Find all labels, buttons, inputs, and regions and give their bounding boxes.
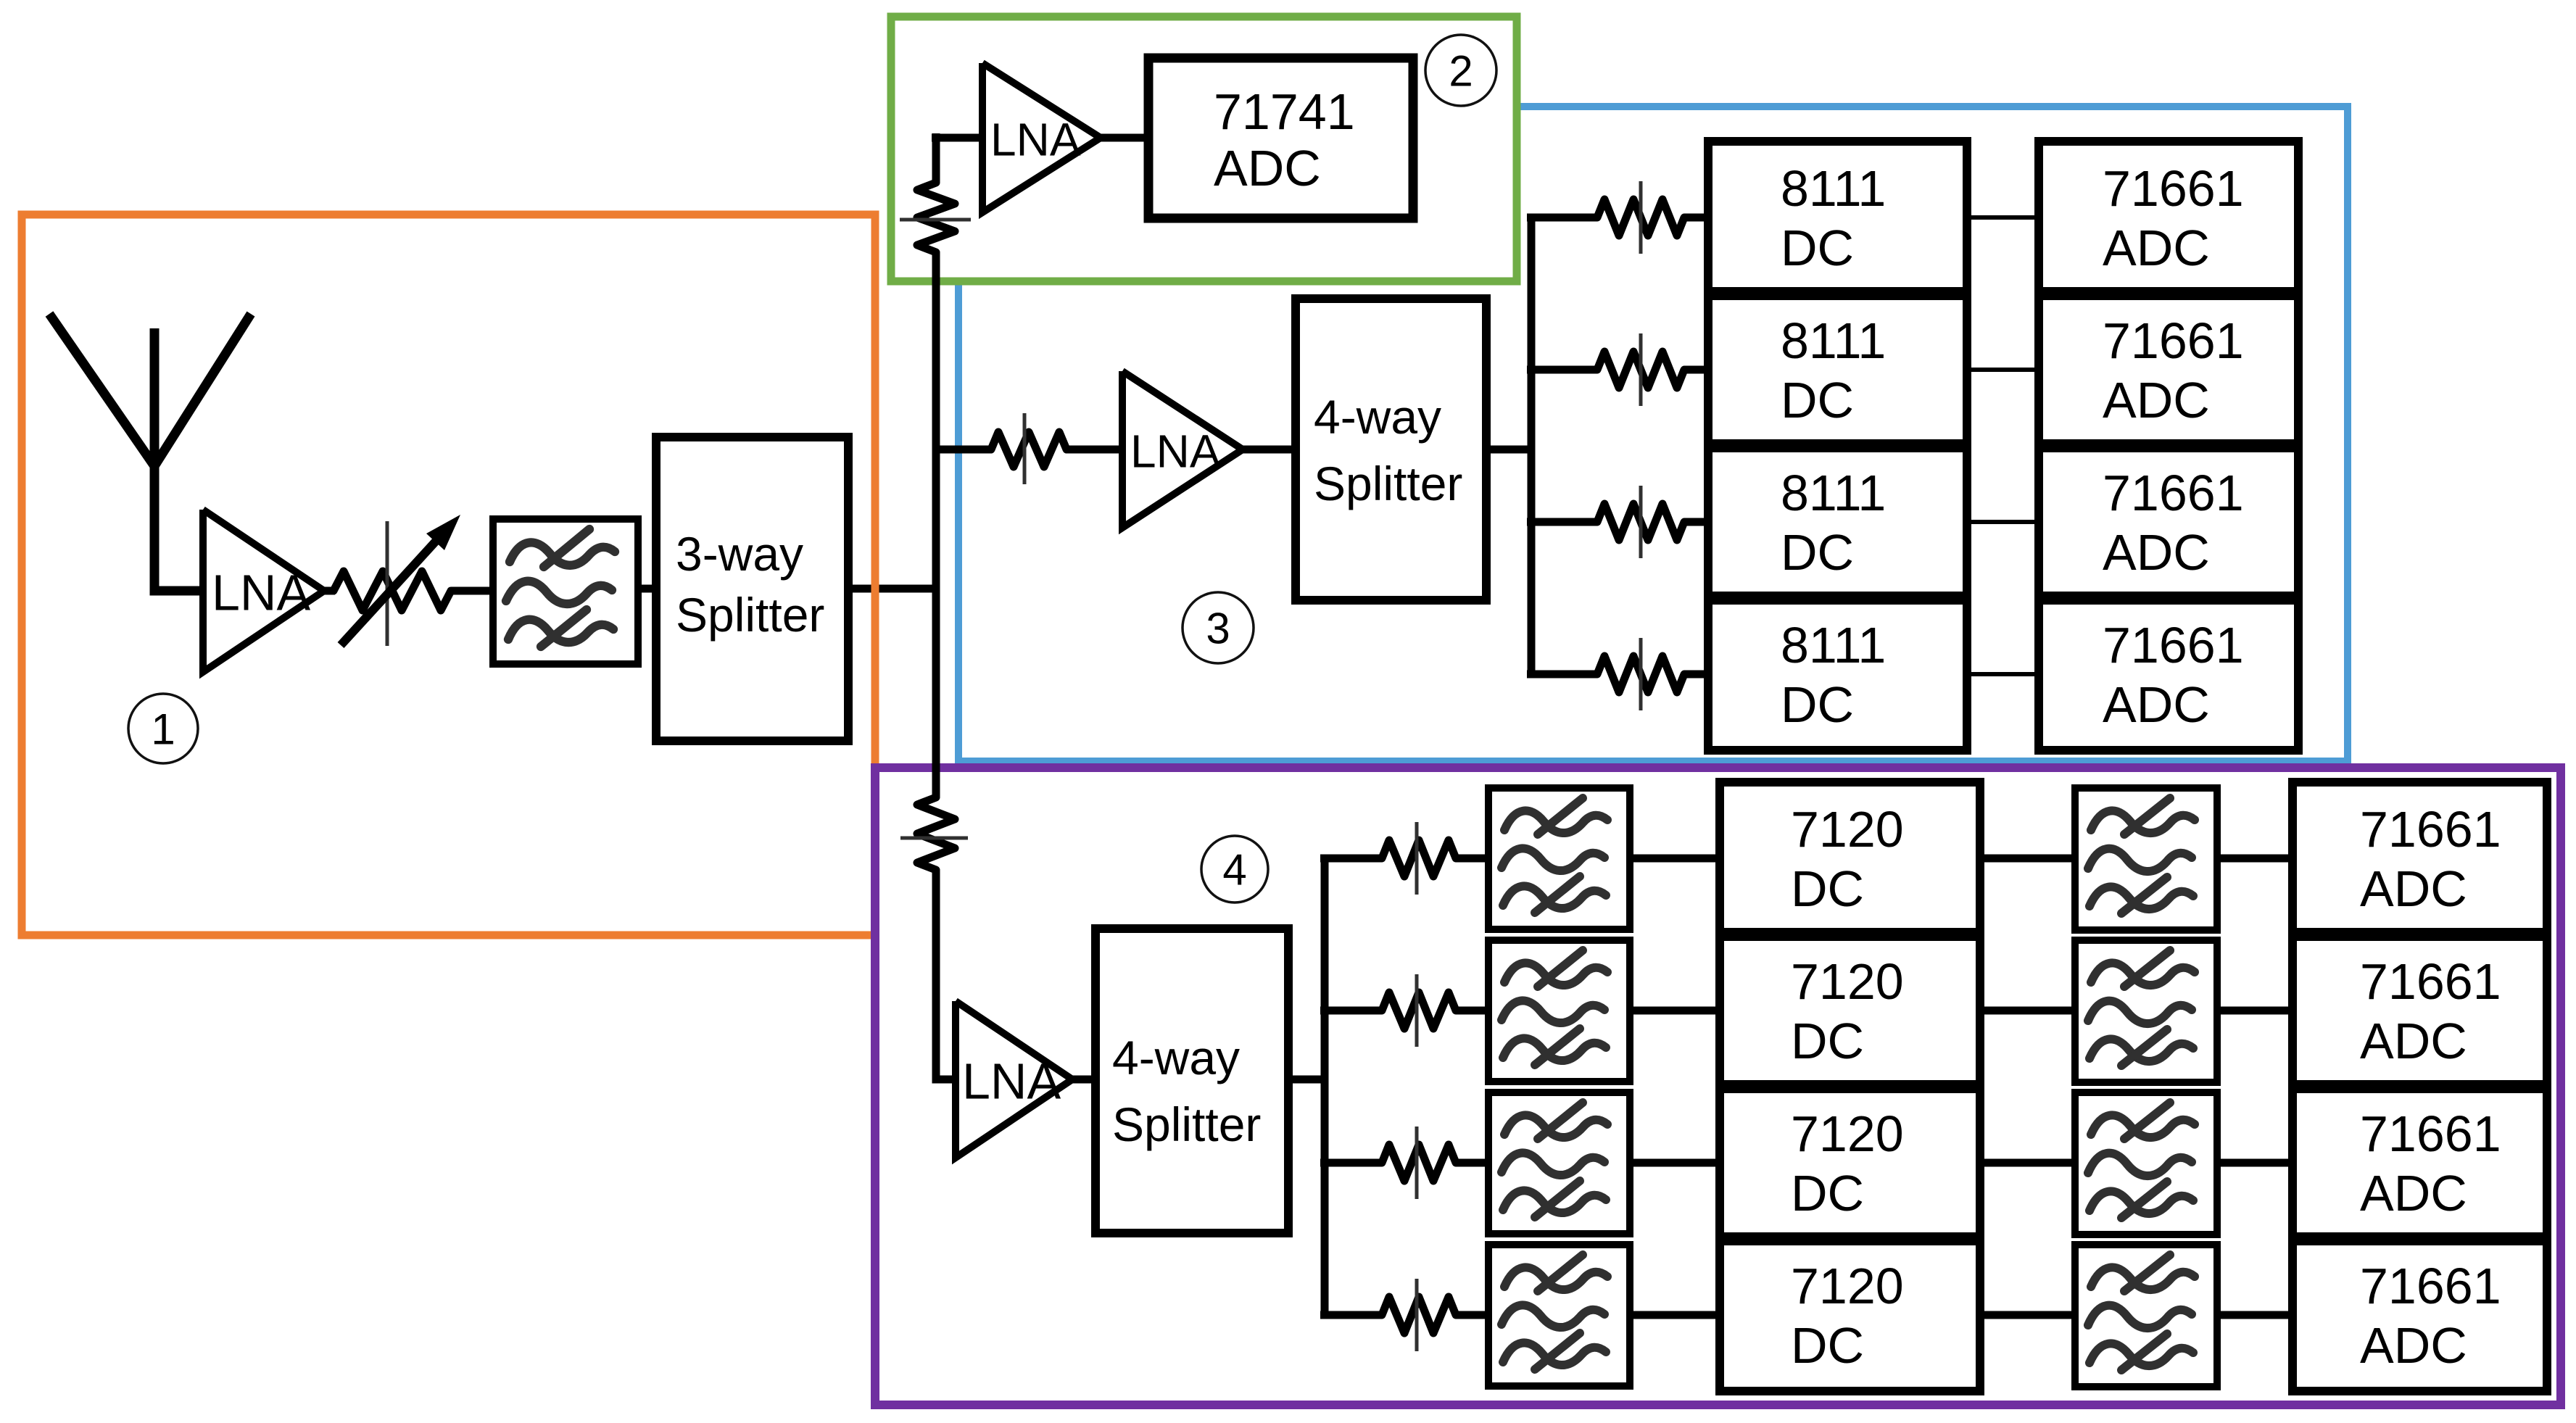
svg-text:LNA: LNA — [962, 1053, 1061, 1110]
svg-text:3: 3 — [1206, 605, 1230, 653]
svg-text:4-way: 4-way — [1112, 1031, 1240, 1084]
svg-text:LNA: LNA — [990, 113, 1081, 165]
svg-text:DC: DC — [1791, 1165, 1864, 1221]
svg-text:LNA: LNA — [1130, 425, 1221, 477]
svg-text:71661: 71661 — [2103, 617, 2244, 673]
svg-text:71661: 71661 — [2360, 953, 2501, 1010]
svg-text:ADC: ADC — [2360, 860, 2467, 917]
svg-text:7120: 7120 — [1791, 1105, 1904, 1162]
svg-text:ADC: ADC — [2103, 676, 2210, 733]
svg-text:8111: 8111 — [1781, 465, 1886, 521]
svg-text:71661: 71661 — [2360, 1105, 2501, 1162]
svg-text:4: 4 — [1222, 846, 1246, 895]
svg-text:DC: DC — [1791, 1013, 1864, 1069]
svg-text:DC: DC — [1781, 372, 1854, 428]
svg-text:4-way: 4-way — [1314, 390, 1441, 444]
svg-text:Splitter: Splitter — [1112, 1098, 1261, 1151]
svg-text:8111: 8111 — [1781, 617, 1886, 673]
svg-text:2: 2 — [1449, 47, 1473, 96]
svg-text:ADC: ADC — [2103, 220, 2210, 276]
svg-text:DC: DC — [1781, 676, 1854, 733]
svg-text:71661: 71661 — [2360, 801, 2501, 858]
svg-text:ADC: ADC — [2360, 1317, 2467, 1374]
svg-text:ADC: ADC — [2103, 524, 2210, 581]
svg-text:Splitter: Splitter — [676, 588, 824, 642]
svg-text:ADC: ADC — [2103, 372, 2210, 428]
svg-text:ADC: ADC — [1214, 140, 1321, 196]
svg-text:ADC: ADC — [2360, 1013, 2467, 1069]
svg-text:8111: 8111 — [1781, 312, 1886, 369]
svg-text:DC: DC — [1781, 220, 1854, 276]
svg-text:Splitter: Splitter — [1314, 457, 1462, 510]
svg-text:7120: 7120 — [1791, 953, 1904, 1010]
svg-text:LNA: LNA — [212, 565, 310, 621]
svg-text:71661: 71661 — [2103, 160, 2244, 217]
svg-text:71741: 71741 — [1214, 83, 1355, 140]
svg-text:ADC: ADC — [2360, 1165, 2467, 1221]
svg-text:71661: 71661 — [2360, 1258, 2501, 1314]
svg-text:8111: 8111 — [1781, 160, 1886, 217]
svg-text:DC: DC — [1791, 1317, 1864, 1374]
svg-text:71661: 71661 — [2103, 312, 2244, 369]
svg-text:7120: 7120 — [1791, 801, 1904, 858]
svg-text:DC: DC — [1791, 860, 1864, 917]
svg-text:3-way: 3-way — [676, 527, 803, 581]
svg-text:1: 1 — [151, 705, 175, 754]
svg-text:7120: 7120 — [1791, 1258, 1904, 1314]
svg-text:71661: 71661 — [2103, 465, 2244, 521]
svg-text:DC: DC — [1781, 524, 1854, 581]
